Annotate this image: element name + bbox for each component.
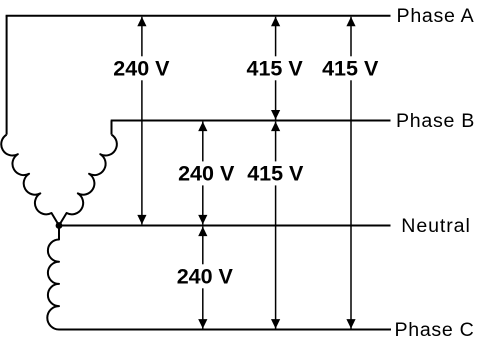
value label 415 V (Phase B - Phase C): [246, 161, 304, 185]
svg-text:240 V: 240 V: [178, 161, 235, 185]
arrowhead down at Phase C (x=202.8): [198, 319, 207, 329]
arrow 415V Phase A to Phase C shaft: [350, 17, 352, 329]
arrow 415V Phase B to Phase C shaft: [275, 122, 277, 329]
winding phase C (bottom vertical coil): [47, 226, 59, 330]
svg-text:415 V: 415 V: [247, 161, 304, 185]
svg-text:415 V: 415 V: [322, 56, 379, 80]
svg-text:Phase C: Phase C: [394, 319, 474, 341]
winding phase A (left diagonal coil): [1, 135, 59, 226]
arrowhead down at Phase C (x=350.5): [346, 319, 355, 329]
wire Phase A line: [6, 15, 391, 17]
svg-text:415 V: 415 V: [247, 56, 304, 80]
arrow 415V Phase A to Phase B shaft: [275, 17, 277, 120]
arrowhead down at Phase C (x=275.6): [271, 319, 280, 329]
arrowhead down at Neutral (x=202.8): [198, 215, 207, 225]
svg-text:240 V: 240 V: [113, 56, 170, 80]
node star point junction dot: [56, 222, 63, 229]
arrowhead up at Phase B (x=275.6): [271, 122, 280, 132]
arrowhead up at Phase B (x=202.8): [198, 122, 207, 132]
arrowhead up at Neutral (x=202.8): [198, 227, 207, 237]
svg-text:Neutral: Neutral: [401, 215, 470, 237]
wire Neutral line: [59, 225, 391, 227]
value label 240 V (Phase B - Neutral): [177, 161, 235, 185]
svg-text:Phase A: Phase A: [397, 5, 475, 27]
svg-text:Phase B: Phase B: [396, 110, 475, 132]
arrow 240V Phase A to Neutral shaft: [141, 17, 143, 225]
wire drop from Phase B: [111, 121, 113, 135]
arrowhead up at Phase A (x=275.6): [271, 17, 280, 27]
arrowhead up at Phase A (x=141.9): [137, 17, 146, 27]
value label 415 V (Phase A - Phase C): [321, 56, 379, 80]
wire Phase B line: [111, 120, 391, 122]
arrowhead down at Neutral (x=141.9): [137, 215, 146, 225]
value label 415 V (Phase A - Phase B): [246, 56, 304, 80]
wire Phase C line: [59, 329, 391, 331]
value label 240 V (Neutral - Phase C): [175, 264, 233, 288]
arrow 240V Phase B to Neutral shaft: [202, 122, 204, 225]
winding phase B (right diagonal coil): [59, 135, 117, 226]
value label 240 V (Phase A - Neutral): [112, 56, 170, 80]
arrowhead up at Phase A (x=350.5): [346, 17, 355, 27]
arrowhead down at Phase B (x=275.6): [271, 110, 280, 120]
arrow 240V Neutral to Phase C shaft: [202, 227, 204, 329]
wire left drop from Phase A: [6, 16, 8, 135]
svg-text:240 V: 240 V: [177, 264, 234, 288]
